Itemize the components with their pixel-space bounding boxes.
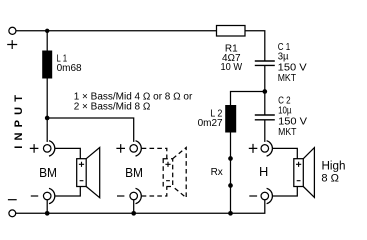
node Rx bottom — [228, 183, 233, 188]
terminal BM1 minus — [43, 188, 54, 203]
wire BM1 minus to rail — [46, 200, 48, 214]
capacitor C1 — [255, 61, 275, 65]
svg-text:High: High — [322, 161, 346, 173]
speaker H — [294, 148, 315, 198]
svg-text:BM: BM — [39, 165, 57, 180]
inductor L1 — [42, 51, 52, 79]
node junction top-left — [45, 29, 49, 33]
node Rx top — [228, 156, 233, 161]
label - (H) — [249, 195, 257, 197]
wire mid junction to C2 — [264, 92, 266, 116]
wire mid junction to L2 — [231, 92, 265, 106]
terminal BM2 plus — [130, 141, 141, 156]
node rail BM2 — [131, 211, 136, 216]
svg-text:10 W: 10 W — [221, 62, 243, 73]
svg-text:10µ: 10µ — [278, 106, 292, 117]
label + (input) — [7, 40, 17, 49]
wire C2 to H plus — [264, 120, 266, 142]
input terminal plus — [9, 27, 16, 34]
svg-text:3µ: 3µ — [278, 52, 289, 63]
wire top rail — [16, 30, 217, 32]
svg-text:Rx: Rx — [211, 167, 223, 178]
svg-text:2 × Bass/Mid 8 Ω: 2 × Bass/Mid 8 Ω — [74, 102, 151, 113]
speaker BM2 (optional, dashed) — [163, 148, 186, 198]
resistor R1 — [217, 26, 246, 37]
wire H plus to speaker — [273, 148, 298, 158]
wire BM2 minus to speaker (dashed) — [142, 187, 167, 197]
label + (H) — [249, 144, 257, 153]
wire BM1 plus to speaker — [55, 148, 80, 158]
wire junction to L1 — [46, 31, 48, 51]
wire bass node to BM1 plus — [46, 118, 48, 142]
svg-text:150 V: 150 V — [278, 117, 307, 128]
label + (BM2) — [116, 144, 125, 153]
capacitor C2 — [255, 115, 275, 120]
svg-text:150 V: 150 V — [278, 62, 307, 73]
wire BM1 minus to speaker — [55, 187, 80, 197]
input terminal minus — [9, 210, 16, 217]
svg-text:0m27: 0m27 — [198, 118, 223, 129]
wire H minus to speaker — [273, 187, 298, 197]
svg-text:H: H — [259, 164, 268, 179]
node bass junction — [45, 116, 50, 121]
svg-text:8 Ω: 8 Ω — [321, 173, 339, 185]
terminal BM1 plus — [43, 141, 54, 156]
svg-text:INPUT: INPUT — [13, 90, 25, 149]
wire bottom rail — [16, 200, 265, 214]
terminal H minus — [261, 188, 272, 203]
svg-text:0m68: 0m68 — [57, 63, 82, 74]
wire BM2 minus to rail — [133, 200, 135, 214]
svg-text:BM: BM — [125, 165, 143, 180]
node rail Rx — [228, 211, 233, 216]
inductor L2 — [225, 105, 236, 133]
node mid junction — [262, 89, 267, 94]
svg-text:MKT: MKT — [278, 127, 296, 138]
label - (input) — [8, 199, 17, 201]
wire L1 to bass node — [46, 79, 48, 119]
wire R1 to C1 — [245, 31, 265, 61]
wire L2 to rail (Rx branch) — [230, 133, 232, 214]
svg-text:MKT: MKT — [278, 73, 296, 84]
wire BM2 plus to speaker (dashed) — [142, 148, 167, 158]
terminal BM2 minus — [130, 188, 141, 203]
wire bass node to BM2 branch — [47, 118, 134, 142]
speaker BM1 — [77, 148, 100, 198]
label - (BM2) — [117, 195, 124, 197]
wire C1 to mid junction — [264, 65, 266, 91]
node rail BM1 — [45, 211, 50, 216]
label + (BM1) — [30, 144, 39, 153]
label - (BM1) — [31, 195, 38, 197]
terminal H plus — [261, 141, 272, 156]
